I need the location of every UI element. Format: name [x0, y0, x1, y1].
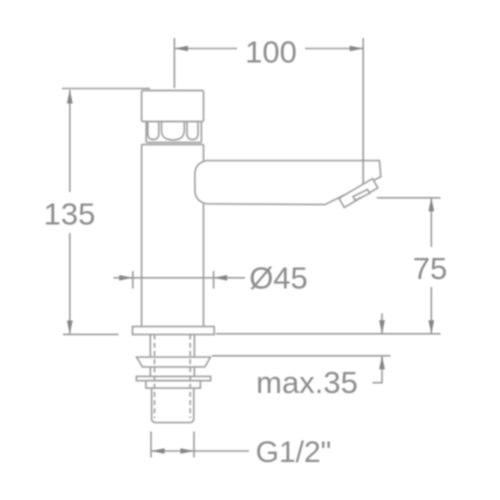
upper shank — [150, 335, 194, 377]
svg-text:G1/2": G1/2" — [256, 436, 332, 469]
dim 135 bottom extension line — [63, 333, 119, 335]
arrow diameter right — [214, 275, 228, 281]
dim max35 line upper — [381, 314, 383, 334]
dim 135 line — [69, 90, 71, 334]
arrow 100 right — [350, 46, 364, 52]
svg-text:max.35: max.35 — [256, 365, 358, 400]
dim diameter line — [114, 277, 246, 279]
lock plate lower — [146, 381, 201, 388]
threaded shank — [152, 388, 194, 423]
dim diameter tick right — [213, 271, 215, 289]
arrow 135 bottom — [67, 321, 73, 335]
spout outline — [195, 161, 381, 205]
olive cone — [137, 357, 211, 367]
body right edge upper — [203, 145, 205, 161]
svg-text:135: 135 — [44, 197, 96, 232]
dim 100 left extension line — [173, 38, 175, 88]
arrow 100 left — [174, 46, 188, 52]
aerator slot — [353, 189, 370, 200]
knurled ring outline — [146, 122, 201, 143]
dim diameter tick left — [132, 271, 134, 289]
arrow G12 right — [180, 448, 194, 454]
svg-text:75: 75 — [413, 251, 447, 286]
svg-text:100: 100 — [245, 35, 297, 70]
dim 100 right extension line — [362, 38, 364, 184]
dim max35 lower extension line — [212, 355, 391, 357]
base flange — [133, 327, 215, 335]
arrow 75 top — [428, 198, 434, 212]
flute right — [187, 122, 198, 140]
dim G12 line with leader — [151, 450, 249, 452]
dim G12 extension right — [193, 432, 195, 458]
faucet head cap — [142, 91, 204, 122]
body left edge — [141, 145, 143, 327]
arrow max35 down — [379, 320, 385, 334]
arrow 135 top — [67, 90, 73, 104]
body top edge — [142, 144, 204, 146]
arrow G12 left — [151, 448, 165, 454]
dim G12 extension left — [150, 432, 152, 458]
flute left — [148, 122, 159, 140]
dim 75 line — [430, 198, 432, 334]
dim 135 top extension line — [62, 88, 150, 90]
aerator housing — [339, 179, 378, 208]
svg-text:Ø45: Ø45 — [249, 261, 308, 296]
hidden thread line left — [154, 335, 156, 419]
arrow max35 up — [379, 356, 385, 370]
body right edge lower — [203, 204, 205, 327]
hidden thread line right — [189, 335, 191, 419]
arrow 75 bottom — [428, 320, 434, 334]
dim max35 upper extension line — [216, 333, 441, 335]
locknut plate — [136, 376, 210, 380]
dim 100 line — [174, 48, 363, 50]
arrow diameter left — [119, 275, 133, 281]
dim 75 top extension line — [377, 197, 441, 199]
flute middle — [162, 122, 185, 141]
dim max35 line lower with hook — [373, 356, 383, 383]
